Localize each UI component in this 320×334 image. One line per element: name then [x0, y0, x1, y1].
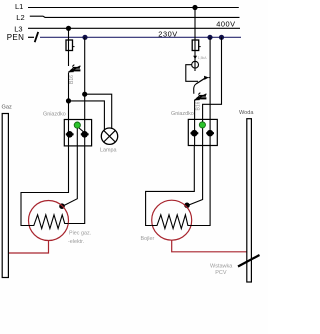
wire socket X1 L down-left to heater	[21, 146, 69, 226]
wire node A to lamp	[85, 94, 112, 129]
svg-text:Woda: Woda	[239, 110, 254, 116]
socket X1 L pin	[66, 131, 74, 138]
socket X2 (box)	[188, 119, 217, 145]
RCD lever arrowhead	[204, 76, 209, 80]
svg-text:PEN: PEN	[7, 33, 24, 42]
svg-text:230V: 230V	[158, 29, 177, 38]
svg-text:B16: B16	[196, 101, 202, 110]
wire PEN label dash	[28, 36, 34, 38]
wire socket X2 PE down to boiler bonding	[188, 146, 203, 206]
svg-text:Wstawka: Wstawka	[210, 264, 233, 270]
arrester circle (RCD sensor)	[192, 61, 199, 68]
wire fuse F2 through arrester circle	[194, 51, 196, 72]
breaker Q2 (MCB)	[194, 93, 206, 101]
svg-text:L1: L1	[15, 2, 23, 11]
RCD switch lever	[196, 78, 205, 84]
wire breaker Q2 down to socket 2	[194, 100, 196, 119]
svg-text:1,5kA: 1,5kA	[198, 56, 207, 60]
socket X1 PE pin (green)	[74, 122, 80, 128]
lamp E1	[101, 128, 117, 144]
socket X2 PE pin (green)	[199, 122, 205, 128]
svg-text:Gniazdko: Gniazdko	[171, 111, 194, 117]
fuse F2	[192, 40, 201, 51]
svg-text:Piec gaz.: Piec gaz.	[69, 231, 91, 237]
socket X1 PE-N bridge	[79, 128, 84, 133]
red bonding wire heater1 to gas pipe	[9, 241, 49, 254]
svg-text:Lampa: Lampa	[100, 148, 116, 154]
boiler (Bojler) red circle	[152, 200, 192, 240]
wire PEN tap down to socket 1 (N)	[84, 37, 86, 119]
svg-text:L2: L2	[16, 13, 24, 22]
wire socket X1 N down to heater right	[68, 146, 84, 224]
svg-text:Gniazdko: Gniazdko	[43, 112, 66, 118]
breaker Q1 (MCB)	[68, 65, 80, 73]
wire fuse F1 to breaker Q1	[68, 51, 70, 67]
RCD lever lower connector	[194, 84, 196, 94]
node B (lamp phase tap)	[66, 98, 71, 103]
wire PEN right PE tap down with jog to socket 2 green pin	[203, 37, 222, 119]
heater 1 (Piec gaz.-elektr.) red circle	[29, 201, 69, 241]
node on PEN (right PE tap)	[219, 35, 224, 40]
water pipe	[247, 119, 252, 282]
wire breaker Q1 down to socket 1	[68, 73, 70, 120]
node A (lamp N tap)	[82, 92, 87, 97]
socket X2 N pin	[206, 130, 214, 137]
socket X2 L pin	[191, 130, 199, 137]
node on PEN (left N tap)	[82, 35, 87, 40]
node boiler PE bond	[184, 203, 190, 209]
node on L3 (left feeder tap)	[66, 26, 71, 31]
wire socket X2 N down to boiler right	[192, 146, 210, 226]
wire L2 bus	[30, 16, 240, 17]
socket X1 internal wires	[69, 120, 85, 147]
wire L3 bus	[28, 27, 240, 29]
fuse F1	[66, 40, 75, 51]
arrester arrow	[193, 56, 197, 59]
svg-text:PCV: PCV	[215, 270, 227, 276]
PCV insert slash	[238, 255, 260, 267]
svg-text:Bojler: Bojler	[141, 236, 155, 242]
socket X2 internal wires	[195, 119, 211, 145]
gas pipe	[2, 114, 8, 278]
wire socket X2 L down-left to boiler	[146, 146, 195, 226]
socket X1 N pin	[81, 131, 89, 138]
node on L1 (right feeder tap)	[192, 5, 197, 10]
RCD arrow stub to N wire	[209, 77, 211, 79]
boiler element (zigzag)	[152, 215, 192, 229]
wire node B to lamp	[69, 101, 105, 130]
wire socket X1 PE down to heater bonding	[63, 146, 78, 206]
wire L1 tap down to fuse F2	[194, 8, 196, 41]
svg-text:Gaz: Gaz	[2, 105, 12, 111]
wire L1 bus	[28, 7, 239, 9]
svg-text:-elektr.: -elektr.	[68, 239, 84, 245]
PEN isolation slash	[35, 32, 39, 42]
svg-text:B16: B16	[69, 75, 75, 84]
node on PEN (right N tap)	[207, 35, 212, 40]
wire PEN bus	[40, 36, 241, 38]
socket X1 (box)	[64, 120, 91, 146]
svg-text:400V: 400V	[216, 19, 235, 28]
wire L3 tap down to fuse F1	[68, 28, 70, 40]
red bonding wire boiler to water pipe	[172, 240, 247, 252]
node heater1 PE bond	[59, 203, 65, 209]
wire PEN right N tap down to socket 2	[209, 37, 211, 119]
wire loop circle to RCD lever	[186, 65, 198, 82]
heater 1 element (zigzag)	[29, 215, 69, 229]
